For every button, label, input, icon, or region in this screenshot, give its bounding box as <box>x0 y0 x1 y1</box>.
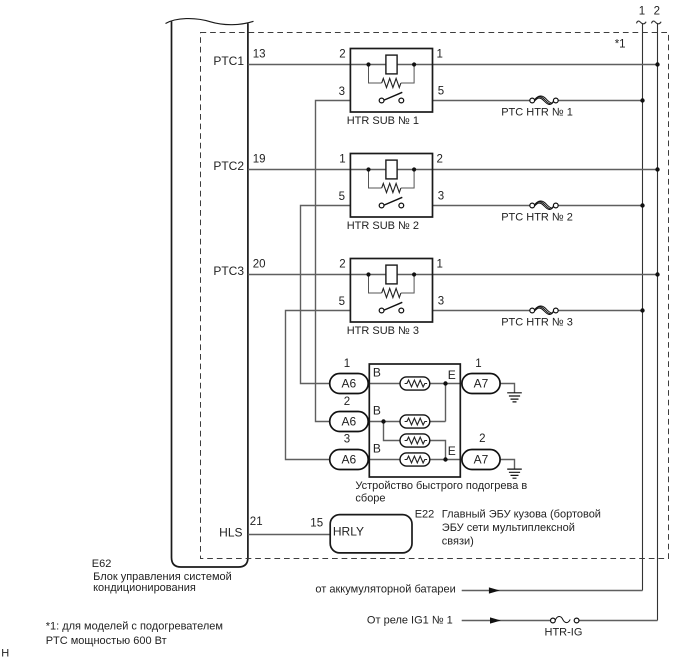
svg-text:19: 19 <box>253 153 266 165</box>
svg-text:От реле IG1 № 1: От реле IG1 № 1 <box>367 614 453 626</box>
svg-text:2: 2 <box>339 259 345 271</box>
svg-text:3: 3 <box>339 86 345 98</box>
svg-text:PTC HTR № 3: PTC HTR № 3 <box>501 317 573 329</box>
svg-text:2: 2 <box>339 49 345 61</box>
svg-text:B: B <box>373 366 381 380</box>
svg-text:2: 2 <box>437 154 443 166</box>
svg-text:1: 1 <box>475 358 481 370</box>
svg-text:3: 3 <box>344 434 350 446</box>
svg-text:5: 5 <box>339 296 345 308</box>
svg-text:HTR SUB № 3: HTR SUB № 3 <box>347 325 419 337</box>
svg-text:1: 1 <box>437 49 443 61</box>
svg-text:B: B <box>373 404 381 418</box>
svg-text:*1: для моделей с подогревател: *1: для моделей с подогревателем <box>46 620 223 632</box>
svg-text:2: 2 <box>654 6 660 18</box>
svg-text:E62: E62 <box>92 558 112 570</box>
svg-text:15: 15 <box>310 518 323 530</box>
svg-text:E: E <box>448 368 456 382</box>
svg-text:1: 1 <box>437 259 443 271</box>
svg-text:20: 20 <box>253 259 266 271</box>
svg-text:HTR-IG: HTR-IG <box>545 626 583 638</box>
svg-text:A7: A7 <box>474 453 489 467</box>
svg-text:связи): связи) <box>442 535 474 547</box>
svg-text:PTC1: PTC1 <box>213 54 244 68</box>
svg-text:1: 1 <box>344 358 350 370</box>
svg-text:Н: Н <box>1 647 9 658</box>
svg-text:HLS: HLS <box>219 526 242 540</box>
svg-text:1: 1 <box>639 6 645 18</box>
svg-text:PTC HTR № 1: PTC HTR № 1 <box>501 107 573 119</box>
svg-text:PTC HTR № 2: PTC HTR № 2 <box>501 212 573 224</box>
svg-text:1: 1 <box>339 154 345 166</box>
svg-text:5: 5 <box>438 86 444 98</box>
svg-text:PTC3: PTC3 <box>213 264 244 278</box>
svg-text:PTC2: PTC2 <box>213 159 244 173</box>
svg-text:Главный ЭБУ кузова (бортовой: Главный ЭБУ кузова (бортовой <box>442 508 601 520</box>
svg-text:3: 3 <box>438 191 444 203</box>
svg-text:A7: A7 <box>474 377 489 391</box>
svg-text:сборе: сборе <box>355 493 385 505</box>
svg-text:21: 21 <box>250 516 263 528</box>
svg-text:PTC мощностью 600 Вт: PTC мощностью 600 Вт <box>46 635 167 647</box>
svg-text:2: 2 <box>344 396 350 408</box>
svg-text:5: 5 <box>339 191 345 203</box>
svg-text:A6: A6 <box>342 453 357 467</box>
svg-text:3: 3 <box>438 296 444 308</box>
svg-text:HRLY: HRLY <box>333 525 364 539</box>
svg-text:E: E <box>448 444 456 458</box>
svg-text:Устройство быстрого подогрева: Устройство быстрого подогрева в <box>355 480 527 492</box>
svg-text:A6: A6 <box>342 377 357 391</box>
svg-text:HTR SUB № 2: HTR SUB № 2 <box>347 220 419 232</box>
svg-text:HTR SUB № 1: HTR SUB № 1 <box>347 115 419 127</box>
svg-text:13: 13 <box>253 49 266 61</box>
svg-text:2: 2 <box>479 433 485 445</box>
svg-text:*1: *1 <box>615 39 626 51</box>
svg-text:Блок управления системой: Блок управления системой <box>93 571 232 583</box>
svg-text:E22: E22 <box>415 508 435 520</box>
svg-text:кондиционирования: кондиционирования <box>93 582 196 594</box>
svg-text:ЭБУ сети мультиплексной: ЭБУ сети мультиплексной <box>442 522 575 534</box>
svg-text:A6: A6 <box>342 415 357 429</box>
svg-text:от аккумуляторной батареи: от аккумуляторной батареи <box>315 583 455 595</box>
svg-text:B: B <box>373 442 381 456</box>
